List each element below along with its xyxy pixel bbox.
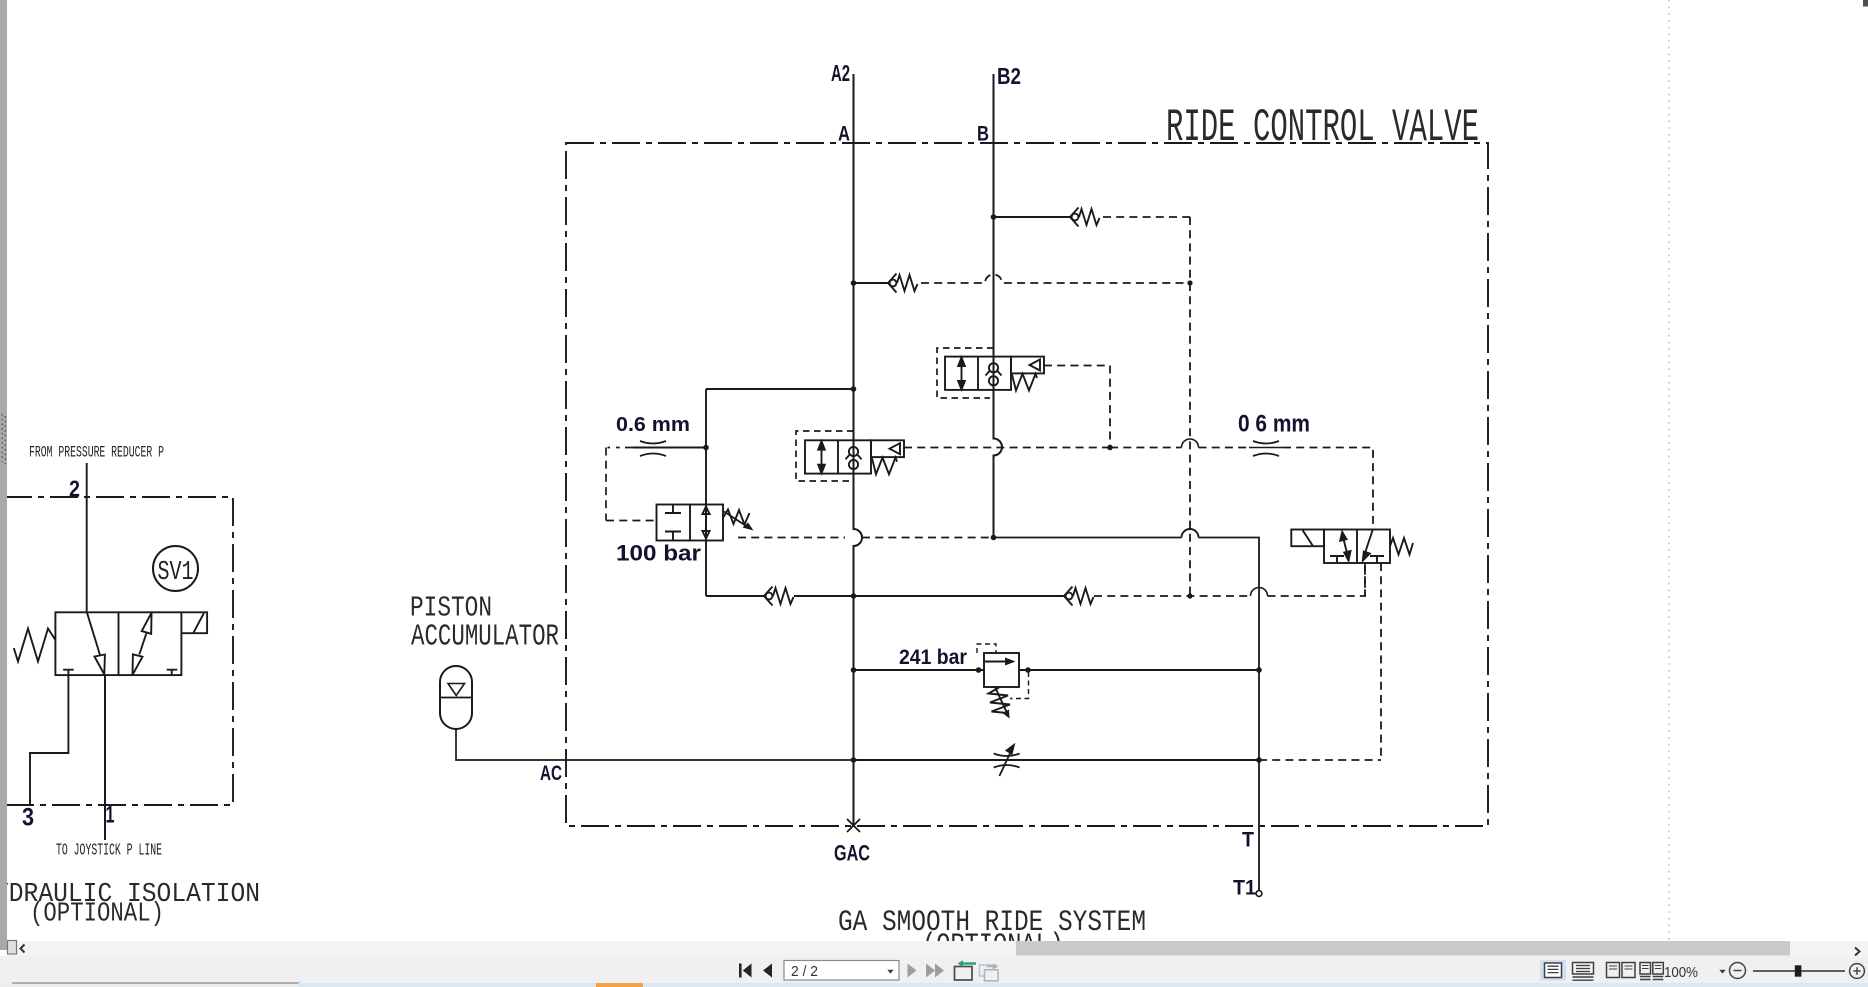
node A/596 junction bbox=[851, 593, 857, 599]
spring SV1 bbox=[14, 629, 56, 662]
sidebar splitter strip bbox=[0, 0, 7, 950]
check valve top right bbox=[1070, 208, 1100, 227]
valve V3 body bbox=[1324, 530, 1390, 564]
node 1259/760 bbox=[1256, 757, 1262, 763]
previous view icon bbox=[955, 967, 973, 981]
svg-text:TO JOYSTICK P LINE: TO JOYSTICK P LINE bbox=[56, 841, 162, 860]
spring 241bar below bbox=[989, 688, 1011, 714]
bottom strip blue bbox=[298, 983, 1868, 987]
node 1259/670 bbox=[1256, 667, 1262, 673]
100bar right cell flow line with hollow arrows bbox=[702, 505, 709, 541]
node junction 1190/596 bbox=[1187, 593, 1192, 598]
valve V3 right cell closed port T bbox=[1370, 556, 1384, 563]
svg-text:T: T bbox=[1242, 829, 1254, 852]
svg-text:0 6 mm: 0 6 mm bbox=[1238, 411, 1310, 438]
valve V3 left cell arrows bbox=[1344, 539, 1348, 553]
valve SV1 left position flow arrow bbox=[87, 612, 105, 674]
svg-text:A: A bbox=[838, 123, 850, 146]
valve V1 poppet circles bbox=[989, 363, 998, 372]
node junction 706/447 bbox=[703, 445, 709, 451]
node A/670 bbox=[851, 667, 857, 673]
valve SV1 right position double arrow bbox=[133, 613, 152, 675]
wire dashed V3 T port down to 760 bbox=[1380, 563, 1382, 760]
241bar adjust arrow bbox=[995, 687, 1008, 714]
svg-text:FROM PRESSURE REDUCER P: FROM PRESSURE REDUCER P bbox=[29, 444, 164, 462]
wire orifice 0.6mm line bbox=[633, 447, 706, 449]
view mode continuous bbox=[1573, 963, 1594, 975]
valve V3 left cell closed port T bbox=[1330, 556, 1344, 563]
svg-text:B: B bbox=[977, 123, 989, 146]
valve SV1 body bbox=[55, 612, 181, 675]
orifice 0 6 mm right bbox=[1249, 447, 1283, 449]
check valve mid bbox=[888, 274, 918, 293]
solenoid V1 bbox=[1011, 357, 1044, 374]
wire bottom 596 line with two check valves bbox=[706, 595, 1064, 597]
valve SV1 center divider bbox=[118, 612, 120, 675]
valve V3 3/2 solenoid right bbox=[1291, 530, 1413, 564]
wire dashed from top check valve to 1190 bbox=[1103, 216, 1190, 218]
wire solid 537 line B to T column with hop at 1190 bbox=[994, 538, 1260, 893]
wire 670 line A to T column bbox=[854, 669, 1260, 671]
variable orifice on AC line bbox=[994, 745, 1020, 776]
node A mid junction bbox=[851, 280, 857, 286]
wire dashed V3 port down to 596 bbox=[1364, 563, 1366, 596]
orifice 0.6 mm bbox=[640, 441, 666, 456]
check valve 596 right bbox=[1064, 587, 1094, 606]
svg-text:SV1: SV1 bbox=[158, 558, 194, 588]
page box caret bbox=[887, 970, 893, 974]
splitter handle dots bbox=[1, 414, 3, 462]
valve SV1 right position closed port T bbox=[167, 670, 178, 675]
wire port 3 step bbox=[30, 675, 68, 805]
node A/389 junction bbox=[851, 386, 857, 392]
valve V2 left position double arrow bbox=[821, 446, 823, 469]
view mode two continuous bbox=[1640, 963, 1651, 975]
svg-text:241 bar: 241 bar bbox=[899, 646, 967, 669]
nav first page button bbox=[739, 964, 772, 978]
view mode single page selected bbox=[1540, 960, 1566, 981]
svg-text:3: 3 bbox=[22, 804, 34, 832]
valve V1 left position double arrow bbox=[961, 362, 963, 385]
valve V2 pilot dashed enclosure bbox=[796, 431, 854, 481]
zoom in button bbox=[1850, 964, 1865, 979]
svg-text:1: 1 bbox=[106, 802, 115, 829]
valve V2 2/2 poppet body bbox=[805, 440, 904, 474]
scrollbar corner mark top right bbox=[1863, 0, 1868, 7]
nav last page disabled bbox=[926, 964, 944, 978]
hydraulic isolation enclosure (dash-dot box) bbox=[0, 497, 233, 805]
wire branch top horizontal to A bbox=[706, 388, 854, 390]
splitter collapse box bbox=[8, 941, 17, 955]
solenoid V2 bbox=[871, 440, 904, 457]
node junction 1110/447 bbox=[1107, 445, 1113, 451]
svg-text:2: 2 bbox=[69, 476, 80, 502]
node A/760 bbox=[851, 757, 857, 763]
241bar pilot dashed drop bbox=[1010, 672, 1029, 699]
spring V3 bbox=[1390, 538, 1413, 555]
scrollbar thumb bbox=[1016, 941, 1790, 956]
wire port 2 line from pressure reducer bbox=[86, 463, 88, 612]
check valve 596 left bbox=[764, 587, 794, 606]
ride control valve enclosure (dash-dot box) bbox=[566, 143, 1488, 826]
svg-text:2 / 2: 2 / 2 bbox=[791, 964, 818, 980]
component circle SV1 designator bbox=[153, 546, 198, 591]
wire accumulator stem bbox=[456, 730, 854, 761]
wire dashed mid to 1190 with hop over B bbox=[921, 275, 1190, 284]
wire B to check valve top bbox=[994, 216, 1071, 218]
wire dashed 596 to right valve with hop over 1259 bbox=[1094, 563, 1365, 596]
wire dash-dot pilot to 100bar valve bbox=[606, 448, 657, 521]
horizontal scrollbar track bbox=[7, 941, 1868, 956]
wire V2 pilot dashed line across with hop at 1190 bbox=[904, 448, 1373, 530]
nav prev page button bbox=[763, 964, 772, 978]
bottom strip orange segment bbox=[596, 983, 643, 987]
node B top junction bbox=[991, 214, 997, 220]
node T1 end port bbox=[1256, 891, 1262, 897]
svg-text:B2: B2 bbox=[997, 63, 1021, 89]
valve V1 2/2 poppet body bbox=[945, 357, 1044, 391]
svg-text:T1: T1 bbox=[1233, 877, 1256, 900]
svg-text:GAC: GAC bbox=[834, 841, 870, 866]
scrollbar right arrow bbox=[1855, 948, 1860, 956]
valve V2 poppet circles bbox=[849, 447, 858, 456]
wire V1 pilot dashed to junction bbox=[1044, 366, 1110, 448]
accumulator piston symbol bbox=[440, 666, 854, 760]
wire AC line 760 to T column bbox=[854, 759, 1260, 761]
next view icon disabled bbox=[980, 965, 994, 976]
nav next page disabled bbox=[908, 964, 917, 978]
spring V2 below solenoid bbox=[872, 458, 897, 475]
valve V1 pilot dashed enclosure bbox=[937, 348, 994, 398]
spring V1 below solenoid bbox=[1012, 374, 1037, 391]
spring 100bar with adjust arrow bbox=[724, 510, 750, 525]
wire hop arc over 1190 bbox=[1182, 439, 1199, 448]
relief valve 100 bar body bbox=[657, 505, 751, 541]
svg-text:AC: AC bbox=[540, 762, 562, 785]
241bar pilot dashed box bbox=[977, 644, 996, 653]
node 1028/670 bbox=[1025, 667, 1031, 673]
relief valve 241 bar bbox=[977, 644, 1029, 714]
valve SV1 left position closed port T bbox=[63, 670, 74, 675]
wire B line vertical bbox=[994, 74, 1003, 537]
node 978/670 bbox=[976, 667, 982, 673]
wire A line vertical bbox=[854, 74, 863, 826]
100bar left cell closed ports bbox=[665, 505, 681, 541]
svg-text:A2: A2 bbox=[831, 60, 850, 86]
zoom caret bbox=[1719, 970, 1726, 974]
wire dashed 760 extension right bbox=[1259, 759, 1381, 761]
page number box bbox=[784, 961, 899, 981]
port GAC cross bbox=[847, 819, 860, 832]
scrollbar left arrow bbox=[21, 945, 25, 953]
wire left branch vertical 706 bbox=[705, 389, 707, 596]
zoom out button bbox=[1730, 963, 1746, 979]
wire port 1 line to joystick bbox=[104, 675, 106, 840]
svg-text:100 bar: 100 bar bbox=[616, 541, 701, 566]
view mode two pages bbox=[1607, 963, 1620, 978]
wire dashed vertical 1190 bbox=[1189, 217, 1191, 596]
wire 100bar pilot dashed to right, solid after B bbox=[738, 537, 994, 539]
solenoid SV1 coil box bbox=[182, 612, 208, 633]
svg-text:ACCUMULATOR: ACCUMULATOR bbox=[411, 620, 559, 655]
bottom strip left bbox=[0, 983, 1868, 987]
svg-text:0.6 mm: 0.6 mm bbox=[616, 414, 690, 436]
svg-text:100%: 100% bbox=[1664, 965, 1698, 981]
node junction 1190/283 bbox=[1187, 280, 1192, 285]
svg-text:(OPTIONAL): (OPTIONAL) bbox=[30, 900, 164, 930]
solenoid V3 bbox=[1291, 530, 1324, 547]
wire A to check valve mid bbox=[854, 282, 889, 284]
zoom slider bbox=[1753, 970, 1845, 972]
node B end junction bbox=[991, 535, 997, 541]
valve V3 right cell arrow bbox=[1365, 530, 1373, 554]
status toolbar background bbox=[0, 956, 1868, 983]
svg-text:RIDE CONTROL VALVE: RIDE CONTROL VALVE bbox=[1166, 102, 1479, 154]
page break dotted line bbox=[1668, 0, 1670, 941]
